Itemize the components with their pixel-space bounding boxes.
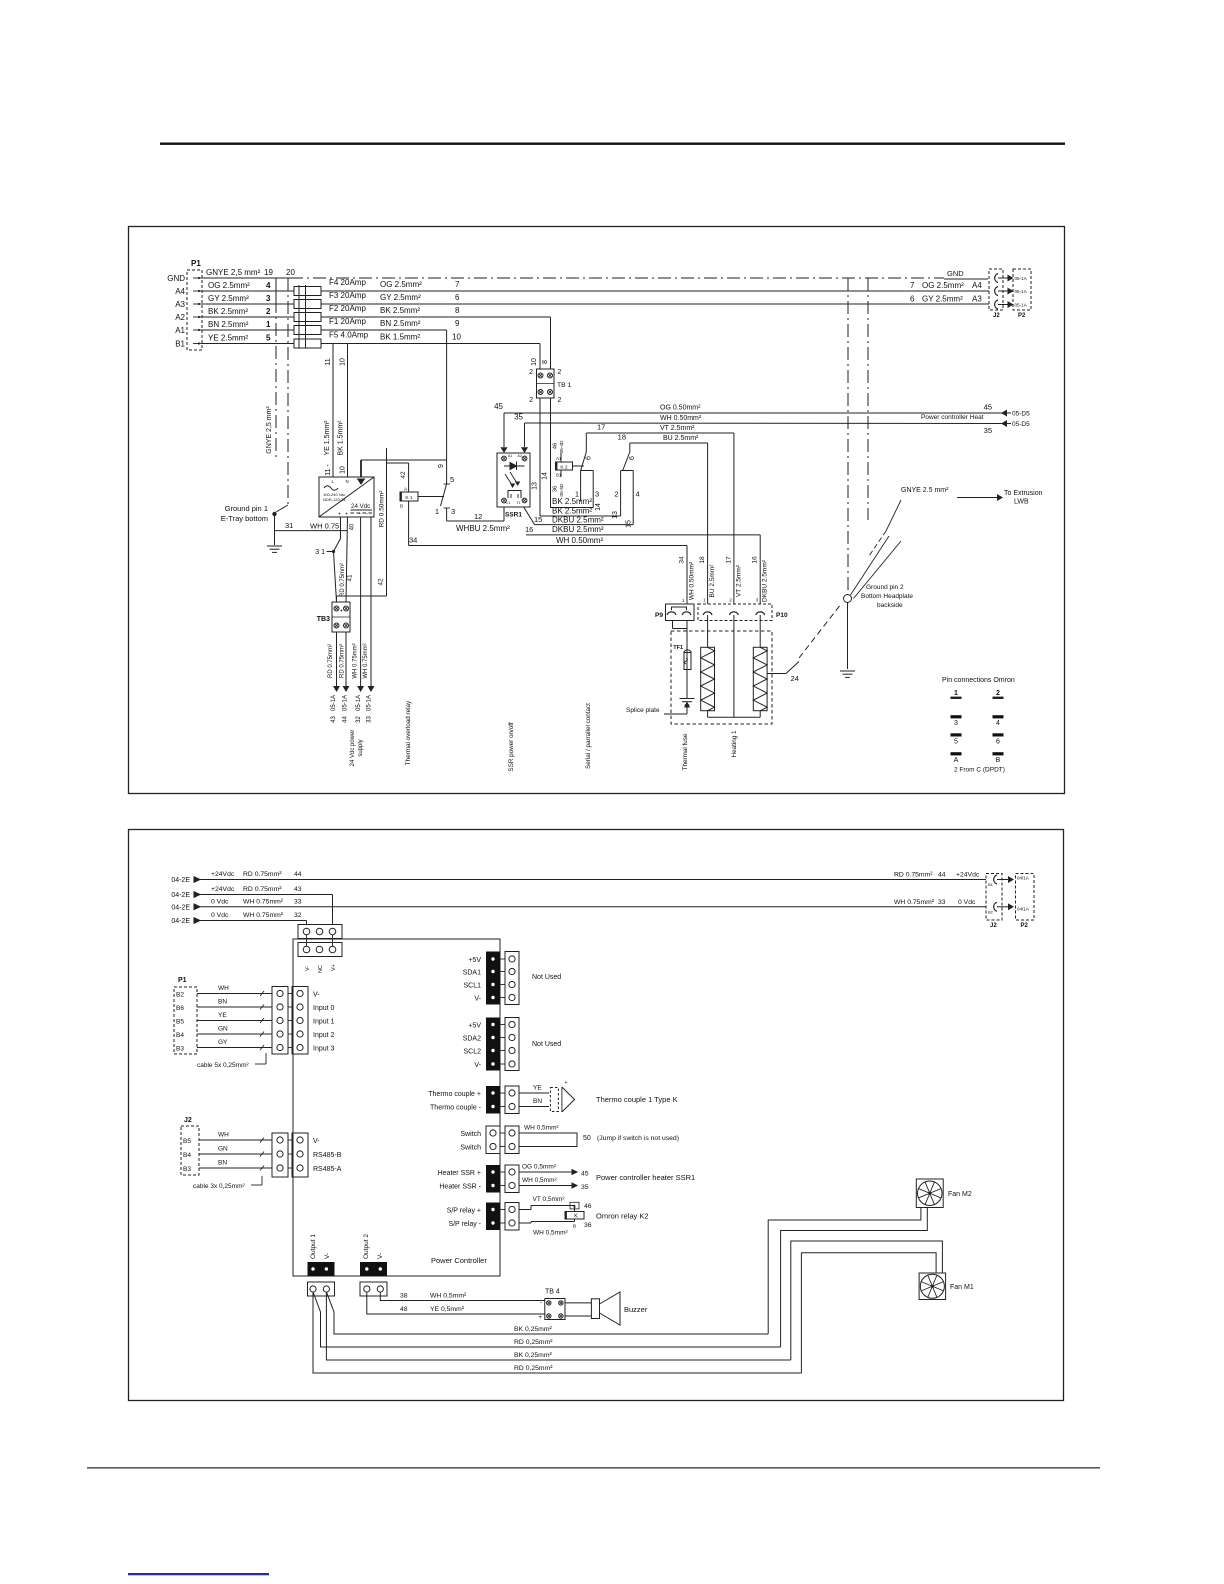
svg-text:NDR-120-24: NDR-120-24 [323,497,346,502]
svg-text:GN: GN [218,1146,228,1153]
svg-text:17: 17 [597,423,605,432]
svg-text:-: - [359,512,361,518]
svg-text:33: 33 [938,899,946,906]
svg-text:05-1A: 05-1A [367,695,373,711]
svg-text:S/P relay +: S/P relay + [447,1208,481,1215]
svg-text:3: 3 [266,294,271,303]
svg-text:B1: B1 [175,340,185,349]
svg-text:B3: B3 [176,1045,184,1052]
svg-text:A1: A1 [175,326,185,335]
svg-text:1: 1 [435,507,439,516]
svg-text:K: K [574,1214,578,1220]
svg-text:Power controller Heat: Power controller Heat [921,414,984,421]
svg-text:(Jump if switch is not used): (Jump if switch is not used) [597,1135,679,1142]
svg-text:5: 5 [450,475,454,484]
svg-text:F3 20Amp: F3 20Amp [329,291,366,300]
svg-text:Buzzer: Buzzer [624,1305,648,1314]
svg-text:20: 20 [286,268,295,277]
svg-text:05-1A: 05-1A [1015,303,1028,308]
svg-text:OG 2.5mm²: OG 2.5mm² [380,280,422,289]
svg-text:16: 16 [752,556,759,564]
svg-text:YE 2.5mm²: YE 2.5mm² [208,334,248,343]
svg-text:04-2E: 04-2E [171,877,190,884]
svg-text:18: 18 [618,433,626,442]
svg-text:E-Tray bottom: E-Tray bottom [221,514,268,523]
svg-text:BU 2.5mm²: BU 2.5mm² [709,564,716,598]
svg-text:43: 43 [331,716,337,723]
svg-text:+5V: +5V [468,957,481,964]
svg-text:+: + [340,609,343,615]
svg-text:50: 50 [583,1135,591,1142]
svg-text:38: 38 [400,1293,408,1300]
svg-text:TB 1: TB 1 [557,382,572,389]
svg-text:19: 19 [264,268,273,277]
svg-text:V-: V- [324,1253,331,1259]
svg-text:J2: J2 [993,313,1000,319]
svg-text:Bottom Headplate: Bottom Headplate [861,593,913,600]
svg-text:11: 11 [325,358,332,365]
svg-text:L1: L1 [507,501,511,505]
svg-text:-: - [366,512,368,518]
svg-text:+5V: +5V [468,1023,481,1030]
svg-text:Pin connections Omron: Pin connections Omron [942,677,1015,684]
svg-text:BK 2.5mm²: BK 2.5mm² [552,497,592,506]
svg-text:J2: J2 [990,923,997,929]
svg-text:BK 1.5mm²: BK 1.5mm² [338,420,345,456]
svg-text:05-D5: 05-D5 [1012,411,1030,418]
svg-text:GY 2.5mm²: GY 2.5mm² [380,293,421,302]
svg-text:04-2E: 04-2E [171,904,190,911]
svg-text:2: 2 [529,369,533,376]
svg-text:DKBU 2.5mm²: DKBU 2.5mm² [762,559,769,602]
svg-text:WH 0,5mm²: WH 0,5mm² [430,1293,467,1300]
svg-text:RD 0.75mm²: RD 0.75mm² [340,563,346,597]
svg-text:A1: A1 [508,454,512,458]
svg-text:VT 2.5mm²: VT 2.5mm² [660,425,695,432]
svg-text:46: 46 [584,1203,592,1210]
svg-text:OG 2.5mm²: OG 2.5mm² [208,281,250,290]
svg-text:B: B [400,504,403,509]
svg-text:GNYE 2,5 mm²: GNYE 2,5 mm² [266,406,273,454]
svg-text:B2: B2 [176,991,184,998]
svg-text:A2: A2 [175,313,185,322]
svg-text:6: 6 [629,456,636,460]
svg-text:15: 15 [534,515,542,524]
svg-text:Input 0: Input 0 [313,1005,335,1012]
svg-text:To Extrusion: To Extrusion [1004,490,1043,497]
svg-text:Output 1: Output 1 [310,1234,317,1259]
svg-text:P1: P1 [178,977,187,984]
svg-text:36: 36 [553,486,559,492]
svg-text:BK 0,25mm²: BK 0,25mm² [514,1326,553,1333]
svg-text:A4: A4 [972,281,982,290]
svg-text:K 2: K 2 [560,464,568,470]
svg-text:Thermal fuse: Thermal fuse [682,733,689,770]
svg-text:Input 3: Input 3 [313,1045,335,1052]
svg-text:GNYE 2,5 mm²: GNYE 2,5 mm² [206,268,261,277]
svg-text:33: 33 [367,716,373,723]
svg-text:SSR power on/off: SSR power on/off [508,722,515,771]
svg-text:F4 20Amp: F4 20Amp [329,278,366,287]
svg-text:1: 1 [266,320,271,329]
svg-text:P10: P10 [776,612,788,619]
svg-text:LWB: LWB [1014,499,1029,506]
svg-text:Input 2: Input 2 [313,1032,335,1039]
svg-text:45: 45 [494,402,503,411]
svg-text:BK 2.5mm²: BK 2.5mm² [380,306,420,315]
svg-text:WH 0.75mm²: WH 0.75mm² [243,898,284,905]
svg-text:04-2E: 04-2E [171,918,190,925]
svg-text:45: 45 [984,403,992,412]
svg-text:N: N [346,479,349,484]
svg-text:DKBU 2.5mm²: DKBU 2.5mm² [552,516,604,525]
svg-text:GY 2.5mm²: GY 2.5mm² [208,294,249,303]
svg-text:T1: T1 [517,501,521,505]
svg-text:B2: B2 [988,909,994,914]
svg-text:44: 44 [343,716,349,723]
svg-text:+: + [538,1314,542,1321]
svg-text:RD 0.75mm²: RD 0.75mm² [894,872,933,879]
svg-text:44: 44 [294,871,302,878]
svg-text:RD 0.75mm²: RD 0.75mm² [243,886,282,893]
svg-text:BN: BN [533,1098,542,1105]
svg-text:P9: P9 [655,612,663,619]
svg-text:B5: B5 [176,1018,184,1025]
svg-text:35: 35 [581,1184,589,1191]
svg-text:42: 42 [400,471,407,479]
svg-text:2: 2 [996,690,1000,697]
svg-text:SSR1: SSR1 [505,512,522,519]
svg-text:10: 10 [340,358,347,366]
svg-text:14: 14 [595,503,602,511]
svg-text:Input 1: Input 1 [313,1018,335,1025]
svg-text:Thermal overload relay: Thermal overload relay [405,700,412,765]
svg-text:2: 2 [266,307,271,316]
svg-text:WH 0,5mm²: WH 0,5mm² [524,1125,560,1132]
svg-text:16: 16 [525,525,533,534]
svg-text:Splice plate: Splice plate [626,707,660,714]
svg-text:BK 1.5mm²: BK 1.5mm² [380,333,420,342]
svg-text:05-1A: 05-1A [331,695,337,711]
svg-text:A3: A3 [972,295,982,304]
svg-text:+24Vdc: +24Vdc [956,872,980,879]
svg-text:Power Controller: Power Controller [431,1256,487,1265]
svg-text:RS485-B: RS485-B [313,1152,342,1159]
svg-text:VT 2.5mm²: VT 2.5mm² [735,564,742,597]
svg-text:GY: GY [218,1039,228,1046]
svg-text:cable 5x 0,25mm²: cable 5x 0,25mm² [197,1062,249,1069]
svg-text:V-: V- [474,996,481,1003]
svg-text:10: 10 [452,333,461,342]
svg-text:05-1A: 05-1A [1015,276,1028,281]
svg-text:2: 2 [614,490,618,499]
svg-text:A4: A4 [175,287,185,296]
svg-text:B: B [996,757,1001,764]
svg-text:B1: B1 [988,882,994,887]
svg-text:35: 35 [514,413,523,422]
svg-text:V-: V- [474,1062,481,1069]
svg-text:32: 32 [294,912,302,919]
svg-text:Heating 1: Heating 1 [731,730,738,757]
svg-text:05-4D: 05-4D [559,440,565,454]
svg-text:TB3: TB3 [317,616,330,623]
svg-text:05-D5: 05-D5 [1012,421,1030,428]
svg-text:B6: B6 [176,1005,184,1012]
svg-text:SCL2: SCL2 [463,1049,481,1056]
svg-text:RD 0.50mm²: RD 0.50mm² [379,490,386,528]
svg-text:43: 43 [294,886,302,893]
svg-text:V+: V+ [331,964,337,971]
svg-text:2 From C (DPDT): 2 From C (DPDT) [954,767,1005,774]
svg-text:YE: YE [218,1012,227,1019]
svg-text:S/P relay -: S/P relay - [448,1221,481,1228]
svg-text:48: 48 [400,1306,408,1313]
svg-text:Switch: Switch [460,1131,481,1138]
svg-text:Thermo couple 1 Type K: Thermo couple 1 Type K [596,1095,678,1104]
svg-text:14: 14 [542,472,549,480]
svg-text:+24Vdc: +24Vdc [211,871,235,878]
svg-text:K 1: K 1 [405,495,413,501]
svg-text:A2: A2 [518,454,522,458]
svg-text:WH 0.75: WH 0.75 [310,522,339,531]
svg-text:WH 0.50mm²: WH 0.50mm² [689,561,696,600]
svg-text:33: 33 [294,898,302,905]
svg-text:Power controller heater SSR1: Power controller heater SSR1 [596,1173,695,1182]
svg-text:Thermo couple +: Thermo couple + [428,1091,481,1098]
svg-text:B5: B5 [183,1138,191,1145]
svg-text:15: 15 [626,520,633,528]
svg-text:7: 7 [910,281,915,290]
svg-text:Serial / parrallel contact: Serial / parrallel contact [585,703,592,769]
svg-text:10: 10 [340,466,347,474]
svg-text:F5 4.0Amp: F5 4.0Amp [329,331,369,340]
svg-text:24: 24 [791,674,799,683]
svg-text:-: - [540,1300,542,1307]
svg-text:5: 5 [954,739,958,746]
svg-text:+24Vdc: +24Vdc [211,886,235,893]
svg-text:RD 0,25mm²: RD 0,25mm² [514,1365,553,1372]
svg-text:31: 31 [285,521,293,530]
svg-text:A1: A1 [556,456,562,461]
svg-text:BN 2.5mm²: BN 2.5mm² [380,319,421,328]
svg-text:B: B [573,1224,576,1230]
svg-text:RD 0.75mm²: RD 0.75mm² [340,644,346,678]
svg-text:3 1: 3 1 [315,549,325,556]
svg-text:04/1A: 04/1A [1017,876,1029,881]
svg-text:supply: supply [358,739,364,756]
svg-text:4: 4 [266,281,271,290]
svg-text:B1: B1 [556,473,562,478]
svg-text:40: 40 [350,523,356,530]
svg-text:RD 0.75mm²: RD 0.75mm² [243,871,282,878]
svg-text:OG 0,5mm²: OG 0,5mm² [522,1164,557,1171]
svg-text:GND: GND [167,274,185,283]
svg-text:46: 46 [553,443,559,449]
svg-text:WHBU 2.5mm²: WHBU 2.5mm² [456,524,510,533]
svg-text:P1: P1 [191,259,201,268]
svg-text:F2 20Amp: F2 20Amp [329,304,366,313]
svg-text:YE 0,5mm²: YE 0,5mm² [430,1306,465,1313]
svg-text:0 Vdc: 0 Vdc [211,898,229,905]
svg-text:+: + [565,1080,568,1086]
svg-text:36: 36 [584,1222,592,1229]
svg-text:BN 2.5mm²: BN 2.5mm² [208,320,249,329]
svg-text:TB 4: TB 4 [545,1289,560,1296]
svg-text:WH 0,5mm²: WH 0,5mm² [533,1230,569,1237]
svg-text:GY 2.5mm²: GY 2.5mm² [922,295,963,304]
svg-text:BN: BN [218,1160,227,1167]
svg-text:B3: B3 [183,1166,191,1173]
svg-text:YE 1.5mm²: YE 1.5mm² [324,420,331,456]
svg-text:V-: V- [377,1253,384,1259]
svg-text:Heater SSR -: Heater SSR - [439,1184,481,1191]
svg-text:4: 4 [636,490,640,499]
svg-text:7: 7 [455,280,460,289]
svg-text:6: 6 [455,293,460,302]
svg-text:NC: NC [318,965,324,973]
svg-text:17: 17 [725,556,732,564]
svg-text:04-2E: 04-2E [171,892,190,899]
svg-text:OG 2.5mm²: OG 2.5mm² [922,281,964,290]
svg-text:05-5D: 05-5D [559,483,565,497]
svg-text:WH: WH [218,1132,229,1139]
svg-text:BN: BN [218,999,227,1006]
svg-text:8: 8 [455,306,460,315]
svg-text:5: 5 [266,334,271,343]
svg-text:SDA2: SDA2 [463,1036,481,1043]
svg-text:VT 0,5mm²: VT 0,5mm² [533,1196,566,1203]
svg-text:SCL1: SCL1 [463,983,481,990]
svg-text:24 Vdc power: 24 Vdc power [350,730,356,767]
svg-text:RD 0.75mm²: RD 0.75mm² [328,644,334,678]
svg-text:12: 12 [474,512,482,521]
svg-text:2: 2 [529,397,533,404]
svg-text:05-1A: 05-1A [1015,289,1028,294]
svg-text:35: 35 [984,426,992,435]
svg-text:V-: V- [313,991,320,998]
svg-text:+: + [345,512,348,518]
svg-text:V-: V- [313,1138,320,1145]
svg-text:34: 34 [679,556,686,564]
svg-text:Heater SSR +: Heater SSR + [438,1170,481,1177]
svg-text:BK 2.5mm²: BK 2.5mm² [208,307,248,316]
svg-text:0 Vdc: 0 Vdc [958,899,976,906]
svg-text:9: 9 [455,319,460,328]
svg-text:BK 2.5mm²: BK 2.5mm² [552,507,592,516]
svg-text:Ground pin 1: Ground pin 1 [225,504,268,513]
svg-text:3: 3 [451,507,455,516]
svg-text:18: 18 [699,556,706,564]
svg-text:9: 9 [438,464,445,468]
svg-text:44: 44 [938,872,946,879]
svg-text:SDA1: SDA1 [463,970,481,977]
svg-text:A3: A3 [175,300,185,309]
svg-text:WH 0,5mm²: WH 0,5mm² [522,1177,558,1184]
svg-text:2: 2 [558,369,562,376]
svg-text:WH 0.75mm²: WH 0.75mm² [363,643,369,678]
svg-text:13: 13 [532,482,539,490]
svg-text:A: A [954,757,959,764]
svg-text:05-1A: 05-1A [343,695,349,711]
svg-text:04/1A: 04/1A [1017,907,1029,912]
svg-text:P2: P2 [1018,313,1026,319]
svg-text:B4: B4 [176,1032,184,1039]
svg-text:Fan M1: Fan M1 [950,1284,974,1291]
svg-text:P2: P2 [1021,923,1029,929]
svg-text:10: 10 [531,358,538,366]
svg-text:TF1: TF1 [673,645,683,651]
svg-text:11 -: 11 - [325,464,332,476]
svg-text:Fan M2: Fan M2 [948,1191,972,1198]
svg-text:WH 0.75mm²: WH 0.75mm² [243,912,284,919]
svg-text:RS485-A: RS485-A [313,1166,342,1173]
svg-text:Omron relay K2: Omron relay K2 [596,1212,649,1221]
svg-text:cable 3x 0,25mm²: cable 3x 0,25mm² [193,1183,245,1190]
svg-text:13: 13 [612,511,619,519]
svg-text:34: 34 [409,536,417,545]
svg-text:3: 3 [595,490,599,499]
svg-text:Not Used: Not Used [532,1041,561,1048]
svg-text:WH 0.75mm²: WH 0.75mm² [894,899,935,906]
svg-text:BU 2.5mm²: BU 2.5mm² [663,435,699,442]
svg-text:Output 2: Output 2 [363,1234,370,1259]
svg-text:WH 0.50mm²: WH 0.50mm² [660,415,702,422]
svg-text:24 Vdc: 24 Vdc [351,503,370,510]
svg-text:Not Used: Not Used [532,974,561,981]
svg-text:V-: V- [305,966,311,971]
svg-text:RD 0,25mm²: RD 0,25mm² [514,1339,553,1346]
svg-text:Switch: Switch [460,1145,481,1152]
svg-text:J2: J2 [184,1117,192,1124]
svg-text:41: 41 [347,574,354,582]
svg-text:YE: YE [533,1085,542,1092]
svg-text:BK 0,25mm²: BK 0,25mm² [514,1352,553,1359]
svg-text:GN: GN [218,1026,228,1033]
svg-text:Thermo couple -: Thermo couple - [430,1105,482,1112]
svg-text:0 Vdc: 0 Vdc [211,912,229,919]
svg-text:2: 2 [558,397,562,404]
svg-text:Ground pin 2: Ground pin 2 [866,584,904,591]
svg-text:+: + [338,512,341,518]
svg-text:WH 0.75mm²: WH 0.75mm² [353,643,359,678]
svg-text:WH 0.50mm²: WH 0.50mm² [556,536,603,545]
svg-text:6: 6 [586,456,593,460]
svg-text:6: 6 [910,295,915,304]
svg-text:backside: backside [877,602,903,609]
svg-text:GNYE 2.5 mm²: GNYE 2.5 mm² [901,487,949,494]
svg-text:F1 20Amp: F1 20Amp [329,317,366,326]
svg-text:1: 1 [954,690,958,697]
svg-text:B4: B4 [183,1152,191,1159]
svg-text:4: 4 [996,720,1000,727]
svg-text:42: 42 [378,578,385,586]
svg-text:05-1A: 05-1A [356,695,362,711]
svg-text:45: 45 [581,1171,589,1178]
svg-text:8: 8 [542,360,549,364]
svg-text:WH: WH [218,985,229,992]
svg-text:GND: GND [947,269,964,278]
svg-text:OG 0.50mm²: OG 0.50mm² [660,405,701,412]
svg-text:DKBU 2.5mm²: DKBU 2.5mm² [552,525,604,534]
svg-text:3: 3 [954,720,958,727]
svg-text:6: 6 [996,739,1000,746]
svg-text:32: 32 [356,716,362,723]
